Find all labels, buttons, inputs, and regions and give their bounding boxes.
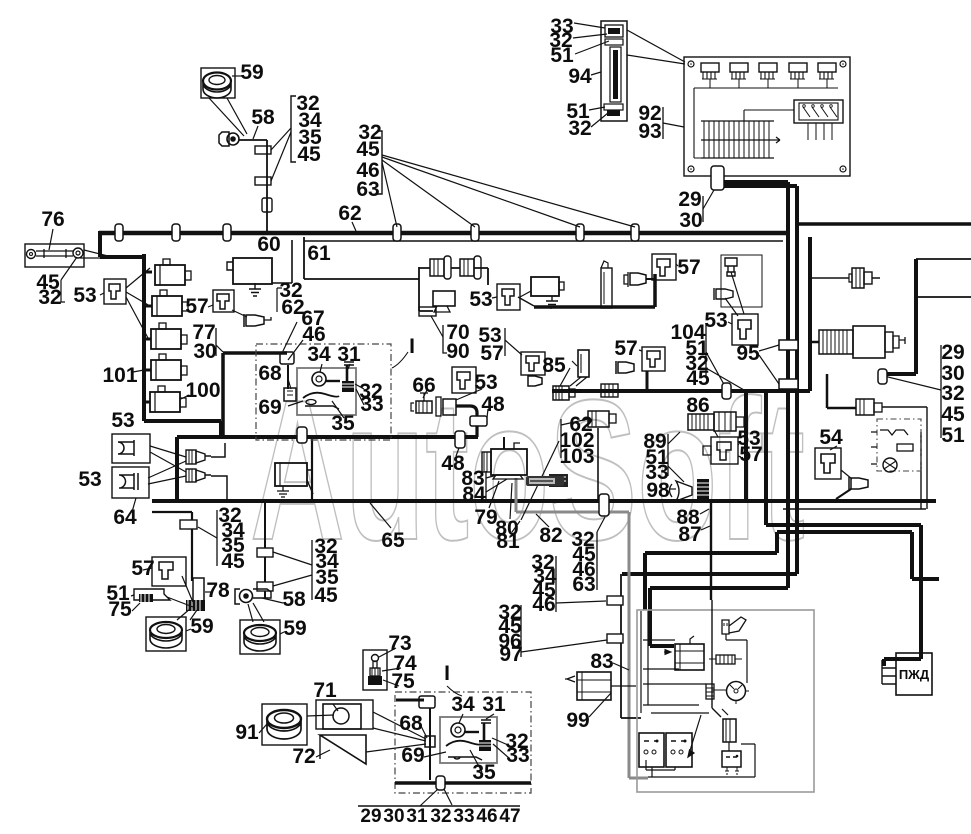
bracket 32-45-46-63 (377, 131, 382, 194)
svg-text:45: 45 (297, 143, 321, 166)
bracket 89-51-33 (667, 434, 669, 476)
clip bus x475 (471, 224, 479, 241)
bracket 32-45-96-97 (520, 605, 522, 657)
bracket 32-45-46-63 b (596, 532, 598, 590)
horn 98 (676, 481, 692, 501)
svg-text:45: 45 (314, 584, 338, 607)
relay chain 101: R1 (155, 259, 191, 285)
lamp icon 97 (722, 617, 746, 634)
svg-text:32: 32 (941, 382, 964, 405)
svg-text:57: 57 (677, 256, 700, 279)
leaders to clips (271, 128, 291, 181)
leader 94 (591, 72, 601, 75)
clip 68b (419, 696, 435, 708)
wire 60 (272, 240, 292, 283)
grommet 59c box (146, 617, 186, 651)
leader 83b (613, 663, 629, 670)
contact bar 85 (578, 350, 589, 377)
leaders 33-32-51 top (573, 23, 609, 54)
leader 58 (253, 126, 258, 139)
wire right drop to bus65 (879, 372, 916, 376)
clip x265 b (257, 582, 273, 591)
svg-text:32: 32 (430, 806, 451, 827)
generator 79 (482, 443, 527, 479)
contact 68 (284, 388, 296, 401)
leader 65 (370, 503, 391, 528)
clip 48a (470, 416, 487, 426)
bracket 92-93 (662, 107, 664, 139)
plug tails (211, 443, 227, 501)
svg-text:84: 84 (462, 483, 486, 506)
plug pair right (849, 268, 872, 288)
leaders lower I internals (421, 714, 509, 772)
leader 62 (352, 222, 356, 231)
svg-text:46: 46 (532, 593, 555, 616)
svg-text:54: 54 (819, 426, 843, 449)
leader 82 (536, 514, 549, 527)
wire link 437-501 (175, 437, 179, 501)
wire 61 thin (304, 240, 783, 242)
arrow contact (688, 715, 701, 757)
wire 86 to bundle (746, 391, 921, 666)
svg-text:53: 53 (469, 288, 492, 311)
wire 82 gray (516, 478, 648, 778)
svg-text:30: 30 (193, 340, 216, 363)
svg-text:57: 57 (739, 443, 762, 466)
svg-text:34: 34 (451, 693, 475, 716)
svg-text:53: 53 (73, 284, 96, 307)
clip x617 b (607, 634, 623, 643)
badge dark (526, 476, 564, 486)
svg-text:91: 91 (235, 721, 259, 744)
svg-text:94: 94 (568, 65, 592, 88)
screw (840, 61, 846, 67)
switch 53a (109, 284, 120, 299)
leaders 48 (456, 409, 488, 456)
connector 78 (193, 578, 204, 604)
svg-text:I: I (409, 335, 415, 358)
switch 57b box (652, 254, 676, 280)
bottom row labels (360, 806, 520, 827)
leaders 73-74-75 (379, 648, 401, 686)
connector pair 86 (688, 412, 744, 431)
leaders 53ef to plugs (148, 446, 186, 484)
connector on 86 bus (601, 384, 618, 397)
switch 57c box (521, 352, 545, 375)
sensor 58b (235, 589, 240, 604)
relay R2 (152, 290, 188, 316)
lamp housing 71 (316, 700, 373, 729)
bracket 104-51-32-45 (705, 323, 707, 378)
leader 99 (589, 693, 611, 717)
svg-text:53: 53 (111, 409, 134, 432)
svg-text:57: 57 (614, 337, 637, 360)
ignition coil (723, 719, 736, 742)
clip x617 a (607, 596, 623, 605)
bracket right 29-30-32-45-51 (940, 345, 942, 438)
grommet 59 box (201, 68, 235, 98)
svg-text:75: 75 (391, 670, 415, 693)
bracket 32-34-45-46 (555, 556, 557, 612)
clip under 70 (419, 307, 436, 316)
svg-text:45: 45 (941, 403, 965, 426)
bracket 70-90 (443, 325, 447, 353)
heater switch sym (880, 430, 908, 435)
lamp 53e (118, 440, 134, 456)
grommet 59d (244, 625, 276, 641)
switch 99 (577, 672, 611, 700)
relay R4 (151, 354, 187, 380)
fuse strip 94 (601, 21, 627, 121)
svg-text:I: I (444, 662, 450, 685)
grommet 91 (267, 710, 301, 728)
dashed group I upper (256, 344, 391, 440)
clip x192 (180, 520, 197, 529)
connector 98 (697, 479, 709, 501)
svg-text:57: 57 (185, 295, 208, 318)
leader 53b-bar (518, 297, 534, 306)
svg-text:90: 90 (446, 340, 469, 363)
battery 2 (666, 733, 692, 767)
leader 59d (280, 632, 284, 634)
wire x810 (808, 237, 812, 391)
svg-text:103: 103 (559, 445, 594, 468)
svg-text:72: 72 (292, 745, 315, 768)
leaders 67-46 (283, 322, 303, 360)
svg-text:33: 33 (453, 806, 474, 827)
PZD connector (882, 660, 896, 684)
leaders 88-87 (700, 509, 710, 530)
plug 66 (411, 393, 456, 416)
wire x265 58b (264, 501, 266, 598)
leader 98 (669, 488, 676, 490)
plug 53d-2 (714, 288, 733, 300)
ground 60b (546, 296, 558, 308)
wire thin y509 (783, 508, 926, 510)
bullet plug b (186, 469, 211, 482)
svg-text:87: 87 (678, 523, 701, 546)
svg-text:66: 66 (412, 374, 435, 397)
flag 72 (320, 735, 366, 764)
heater resistor (897, 444, 913, 451)
leader I lower (447, 686, 462, 696)
svg-text:51: 51 (550, 44, 574, 67)
svg-text:78: 78 (206, 579, 230, 602)
svg-text:35: 35 (331, 412, 355, 435)
svg-text:62: 62 (281, 296, 304, 319)
connector plug 1 on fusebox (701, 63, 719, 88)
switch 57b (657, 259, 670, 276)
svg-text:45: 45 (686, 367, 710, 390)
aux relay (722, 751, 741, 767)
bolt 31 (344, 362, 354, 365)
ring 34 (312, 372, 326, 386)
switch 53b box (497, 284, 520, 310)
svg-text:46: 46 (476, 806, 497, 827)
relay stubs (144, 272, 152, 402)
leader 66 (423, 390, 427, 398)
leaders 53d (725, 272, 744, 324)
svg-text:65: 65 (381, 529, 405, 552)
wire left stub 512 (152, 512, 192, 581)
wire gen top (503, 437, 505, 449)
switch 54 box (815, 448, 841, 479)
bolt 73 (372, 655, 379, 662)
leader 57a (208, 305, 247, 317)
clip bus x227 (223, 224, 231, 241)
switch 53d box (732, 314, 758, 345)
wire 77-30 drop (223, 353, 287, 437)
screw (840, 166, 846, 172)
bracket 77-30 (215, 328, 217, 356)
engine wires (646, 742, 755, 777)
wire 57a feed (534, 274, 655, 307)
lamp plug 45a (430, 256, 451, 279)
svg-text:93: 93 (638, 120, 661, 143)
flasher cylinder 95 (819, 326, 905, 358)
svg-text:32: 32 (38, 286, 61, 309)
svg-text:76: 76 (41, 208, 64, 231)
switch 53b (502, 289, 514, 305)
leader 53b-60b (520, 291, 531, 297)
battery 1 (639, 733, 664, 767)
svg-text:53: 53 (704, 309, 727, 332)
bracket 32-34-35-45 (291, 96, 296, 162)
inner rail (694, 88, 838, 158)
svg-text:60: 60 (257, 233, 280, 256)
relay R3 (151, 323, 187, 349)
svg-text:62: 62 (338, 202, 361, 225)
leaders 79-80-81 (489, 481, 520, 532)
leader 71 (333, 704, 338, 711)
relay R5 (150, 386, 186, 412)
svg-text:30: 30 (679, 209, 702, 232)
switch 57e box (152, 557, 186, 586)
svg-text:86: 86 (686, 394, 709, 417)
starter (664, 636, 704, 670)
clip on 59 wire (255, 177, 271, 185)
svg-text:68: 68 (258, 362, 282, 385)
plug 54 (849, 477, 868, 490)
svg-text:33: 33 (506, 744, 529, 767)
svg-text:63: 63 (356, 178, 379, 201)
svg-text:82: 82 (539, 524, 562, 547)
plug y400 (827, 374, 927, 509)
leader 72 (316, 750, 330, 757)
clip bus x397 (393, 224, 401, 241)
clip bus x635 (631, 224, 639, 241)
leader 58b (262, 598, 283, 603)
screw (688, 61, 694, 67)
wire x312 (311, 439, 313, 501)
svg-text:45: 45 (356, 138, 380, 161)
lamp plug 46a (460, 256, 481, 279)
voltage tag dark (549, 474, 568, 487)
wire 59 drop (239, 140, 267, 233)
svg-text:35: 35 (472, 761, 496, 784)
svg-text:29: 29 (360, 806, 381, 827)
connector plug 2 (730, 63, 748, 88)
screw (688, 166, 694, 172)
ground 58x (277, 486, 289, 497)
wire lower I column (429, 708, 431, 780)
plug box 53d frame (721, 255, 762, 307)
clip x882 (878, 369, 887, 384)
fan 58b to 59d (248, 603, 264, 622)
heater motor (883, 458, 897, 472)
svg-text:32: 32 (568, 117, 591, 140)
wire top right staircase (914, 259, 918, 374)
svg-text:29: 29 (941, 341, 964, 364)
wire 66-53 drop (456, 406, 477, 437)
leader 78 (205, 591, 212, 593)
buzzer 70 (433, 291, 455, 306)
connector plug 4 (789, 63, 807, 88)
leader 64 (132, 498, 136, 512)
lamp 53f box (112, 467, 149, 498)
svg-text:57: 57 (131, 557, 154, 580)
sensor 58 (219, 132, 229, 146)
wire bus 437 (177, 435, 478, 439)
switch 57e (159, 562, 173, 579)
wire fusebox left drop (622, 176, 797, 646)
bottom leader line (358, 805, 520, 807)
connector plug 3 (759, 63, 777, 88)
switch 53d (738, 320, 751, 339)
connector plug 5 (818, 63, 836, 88)
lever 69b (448, 757, 482, 760)
leader 59c (186, 629, 191, 631)
svg-text:31: 31 (337, 343, 361, 366)
wire lower I bus (395, 781, 531, 785)
wire thin rails right (916, 259, 971, 297)
grommet 59c (150, 622, 182, 638)
wire 57d to bus86 (646, 371, 649, 391)
leaders 51-75 (131, 595, 140, 611)
bracket 32-34-35-45 mid (311, 540, 313, 600)
plug 53d-1 (725, 258, 737, 276)
rib 74 (370, 668, 380, 676)
switch 53a box (104, 279, 126, 304)
wire 76 feed (100, 231, 144, 257)
switch 54 (821, 454, 835, 473)
svg-text:59: 59 (240, 61, 263, 84)
leaders 51-32 bottom (589, 107, 608, 127)
wire 99 out (611, 685, 636, 687)
svg-text:85: 85 (542, 354, 566, 377)
wire relay column (144, 254, 221, 437)
svg-text:53: 53 (474, 371, 497, 394)
bolt 31b (481, 720, 491, 723)
svg-text:68: 68 (399, 712, 423, 735)
svg-text:48: 48 (481, 393, 505, 416)
svg-text:101: 101 (102, 364, 137, 387)
bullet plug a (186, 450, 211, 464)
grommet 91 box (262, 704, 307, 745)
svg-text:83: 83 (590, 650, 613, 673)
leaders 54 (830, 446, 852, 479)
bracket 53-57c (504, 328, 506, 356)
grommet 59 (203, 73, 231, 90)
wire fusebox right drop (720, 176, 788, 182)
connector 68c (425, 736, 435, 747)
fans 71-72 to connector (366, 712, 426, 752)
ignition subbox lower (440, 717, 497, 763)
relay 58x (275, 463, 307, 486)
leaders upper I internals (288, 364, 364, 418)
wire plug row (419, 268, 488, 285)
fan 78 (167, 576, 197, 620)
clip on lower bus (436, 776, 445, 790)
switch 57a box (213, 290, 234, 312)
clip 35a on bus437 (297, 427, 307, 443)
wire lamp loop (304, 237, 433, 311)
ignition subbox (297, 368, 356, 415)
fuse comb inside (701, 121, 780, 158)
relay 60 (233, 258, 272, 284)
clip 68a on wire (280, 352, 294, 364)
wire top stub (396, 699, 424, 702)
inner wire (744, 110, 794, 121)
clip bus x580 (576, 224, 584, 241)
clip on 59 wire (262, 198, 272, 212)
headlamp 76 body (27, 250, 36, 259)
switch 53c box (452, 367, 476, 393)
ground 60 (249, 283, 261, 296)
base 75 (368, 676, 382, 685)
leaders 53g (714, 430, 741, 457)
leader 57e (143, 568, 152, 570)
svg-text:63: 63 (572, 573, 595, 596)
fan lines to bus clips (382, 155, 635, 227)
plug 57a (244, 314, 264, 327)
relay 102-103 (588, 411, 616, 427)
plug 85b (553, 386, 575, 400)
leaders 85 (560, 361, 577, 386)
leaders 53a (100, 268, 150, 338)
svg-text:51: 51 (941, 424, 965, 447)
relay 60b (531, 277, 559, 296)
svg-text:31: 31 (482, 693, 506, 716)
wire main bus 233 (99, 231, 790, 236)
engine compartment box (637, 610, 814, 792)
svg-text:75: 75 (108, 598, 132, 621)
contact bar 61b (601, 261, 612, 308)
leaders 91 (259, 715, 334, 733)
clip 48b (455, 431, 465, 448)
grommet 59d box (240, 620, 280, 654)
svg-text:71: 71 (313, 679, 337, 702)
wire bundle mid (645, 532, 939, 610)
svg-text:57: 57 (480, 342, 503, 365)
switch 57c (526, 356, 539, 371)
svg-text:31: 31 (406, 806, 428, 827)
svg-text:81: 81 (496, 530, 520, 553)
lamp 53e box (112, 434, 150, 463)
dashed group I lower (395, 692, 531, 793)
headlamp 76 box (25, 244, 84, 267)
clip on 86 bus (722, 383, 731, 399)
svg-text:29: 29 (678, 188, 701, 211)
leader 57d (639, 350, 642, 351)
wire bus 65 (152, 499, 936, 503)
svg-text:69: 69 (258, 396, 281, 419)
distributor (727, 682, 746, 701)
connector 29-30 under fusebox (711, 166, 724, 190)
svg-text:58: 58 (282, 588, 306, 611)
wire clip68 drop (287, 365, 289, 389)
clip bus x176 (172, 224, 180, 241)
